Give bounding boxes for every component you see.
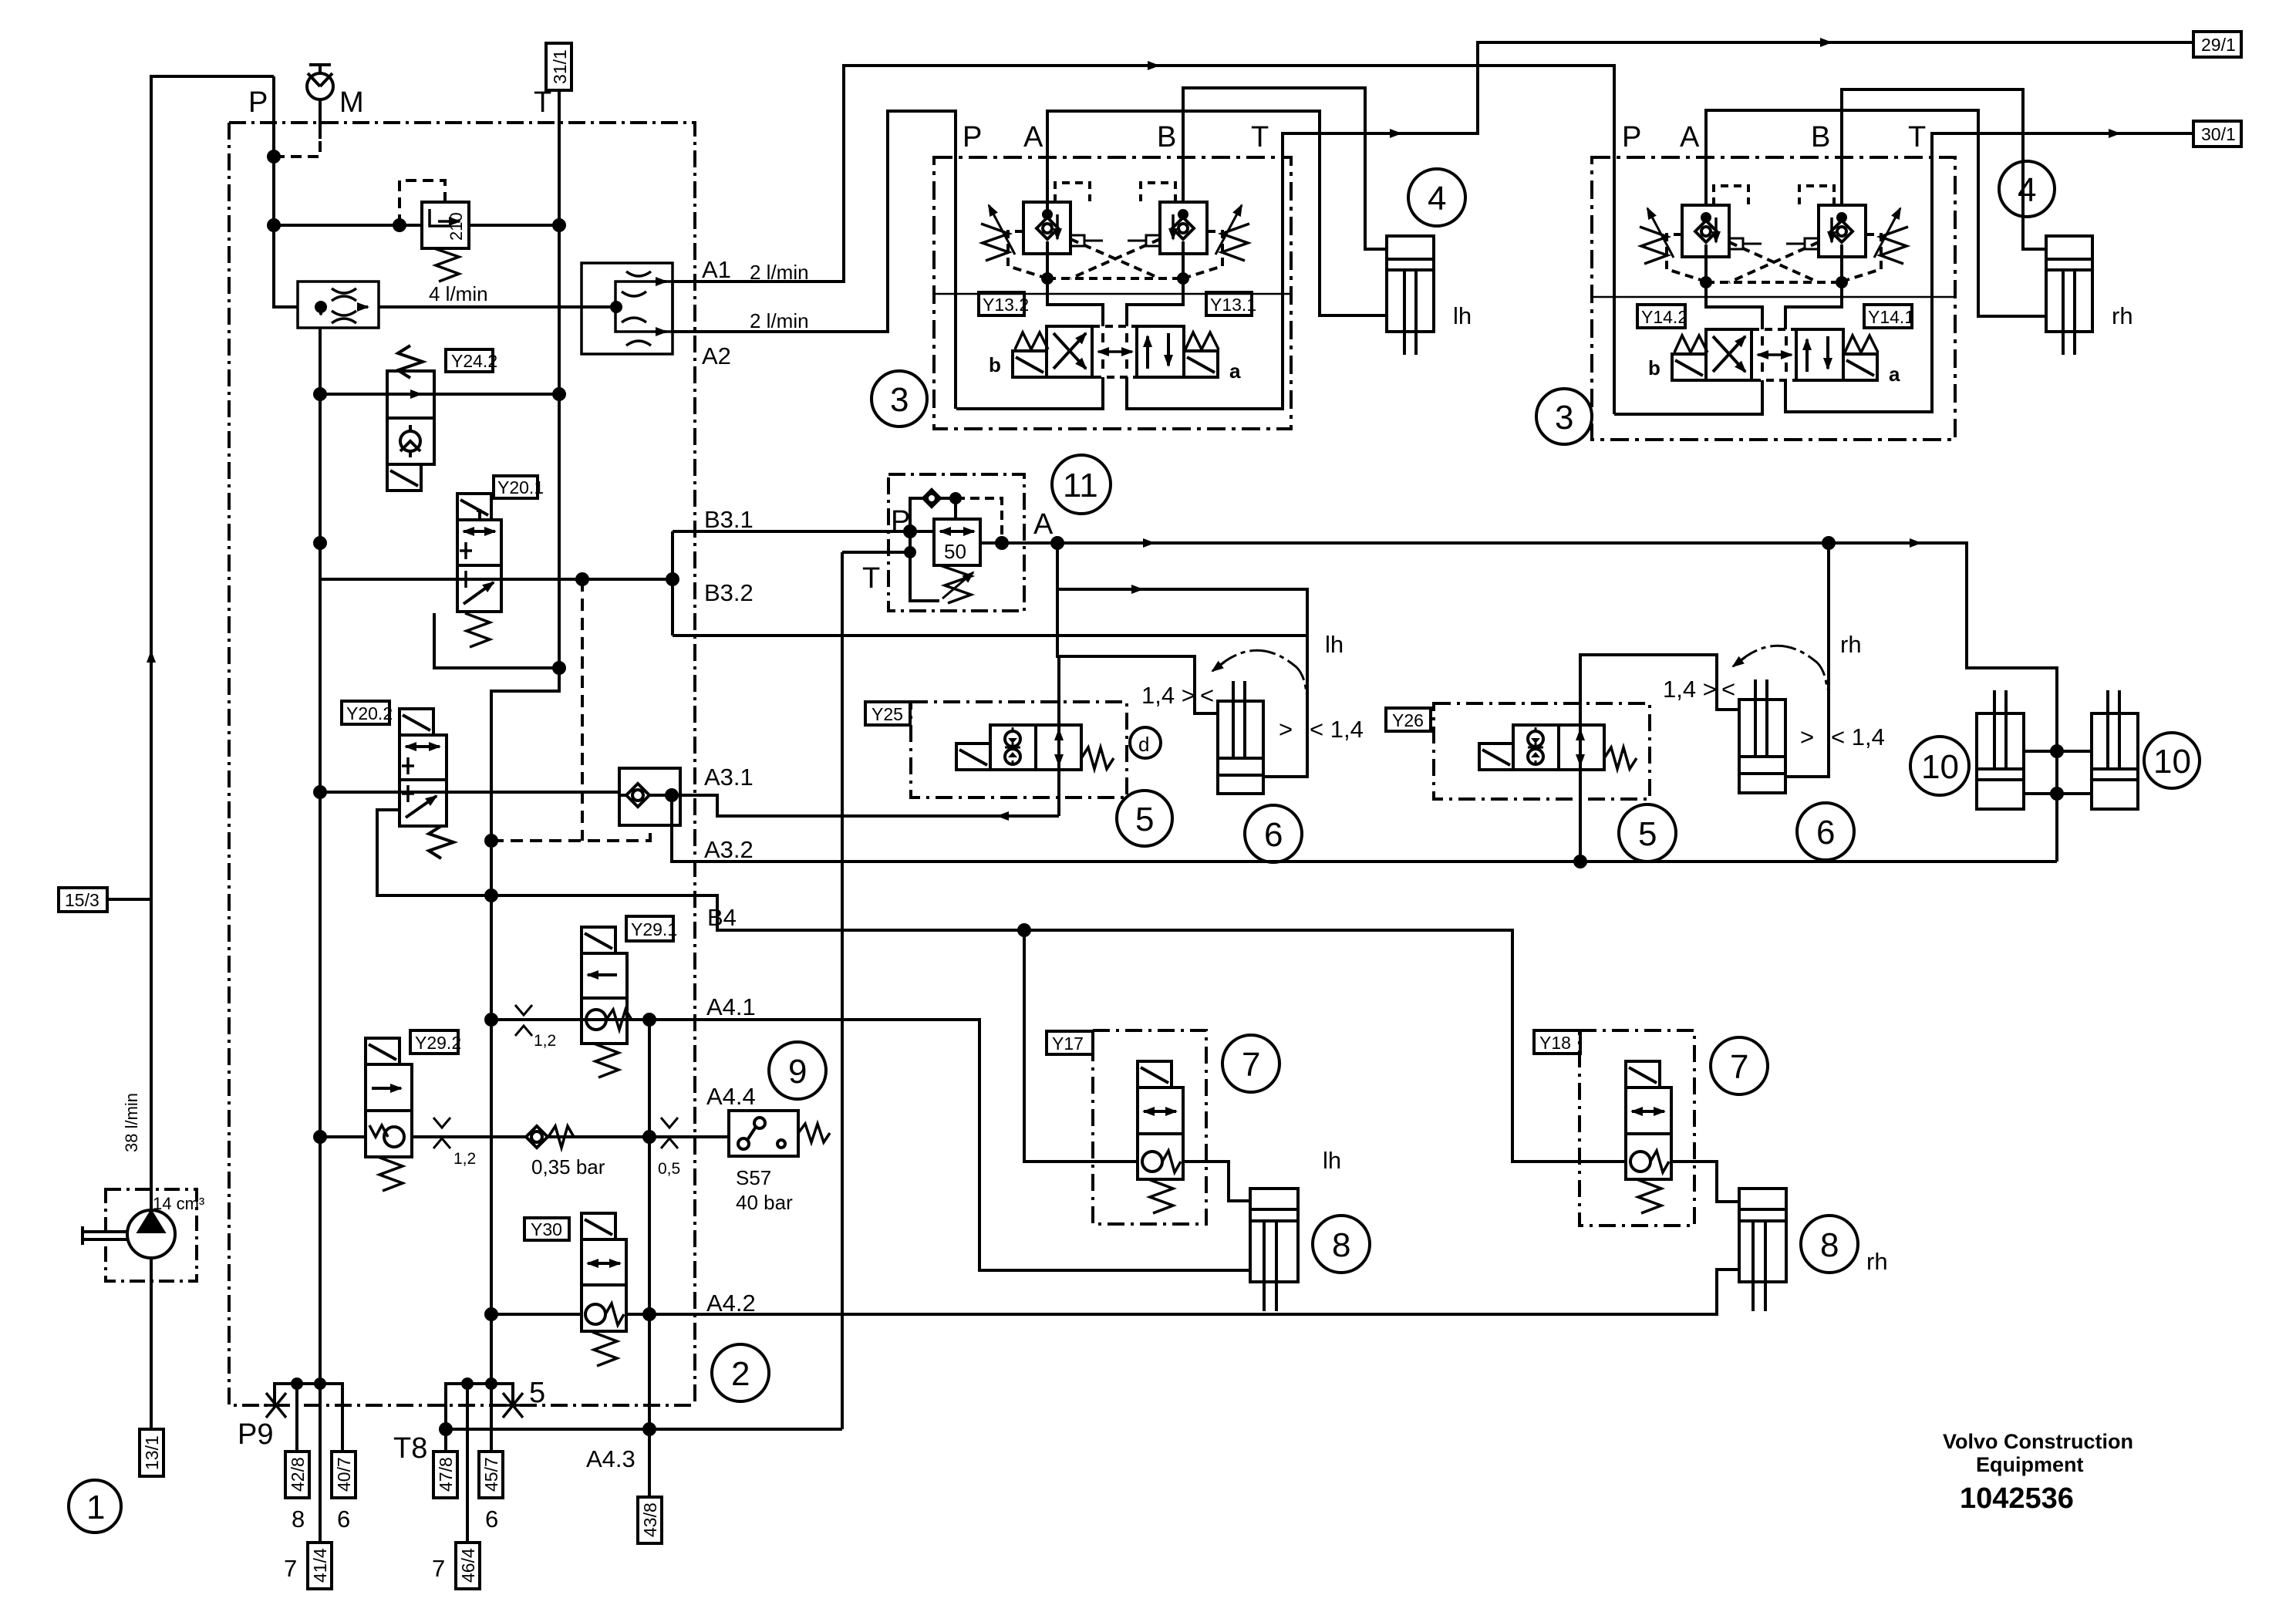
wire: Y24.2 output line to T — [320, 393, 559, 396]
frame: outer dash-dot enclosure (pump station) — [229, 123, 695, 1405]
wire: Y17 out to cylinder 8 lh — [1183, 1162, 1250, 1201]
check valve 0,35 bar — [526, 1126, 574, 1148]
wire: A4.2 to A4.3 frame corner — [841, 1314, 843, 1429]
wire: Y25 through-line — [1057, 656, 1060, 816]
svg-text:38 l/min: 38 l/min — [122, 1093, 141, 1152]
dashed box above CB A lh — [1055, 183, 1090, 202]
valve Y29.2 — [366, 1038, 412, 1191]
wire: T jog to x=637 bus — [491, 668, 559, 1384]
svg-text:T: T — [534, 86, 551, 119]
wire: rh-6 bottom feed — [1785, 543, 1829, 777]
tag 43/8 — [638, 1497, 662, 1543]
wire: Y20.2 main line A3.1 left part — [320, 791, 619, 794]
tag 40/7 — [332, 1452, 356, 1498]
svg-text:rh: rh — [1840, 631, 1862, 658]
svg-text:Y29.2: Y29.2 — [415, 1033, 461, 1053]
svg-text:1,2: 1,2 — [453, 1150, 476, 1168]
wire: A jog into 4/3 valve rh — [1706, 257, 1762, 329]
svg-text:1,4 >: 1,4 > — [1663, 676, 1717, 703]
svg-text:A: A — [1023, 121, 1043, 153]
svg-text:6: 6 — [1264, 816, 1283, 854]
frame: valve block 3 lh dash-dot — [934, 157, 1291, 429]
svg-text:6: 6 — [485, 1506, 498, 1533]
svg-text:46/4: 46/4 — [458, 1548, 478, 1583]
valve Y20.1 — [457, 494, 501, 647]
wire: A2 from divider bottom to left block P — [673, 111, 956, 409]
dashed pilot cross lh — [1008, 231, 1222, 278]
X mark T8 (5) — [501, 1393, 525, 1418]
svg-text:43/8: 43/8 — [640, 1502, 660, 1537]
circle d — [1130, 727, 1161, 758]
circle 8 rh — [1801, 1216, 1858, 1273]
cylinder 8 lh — [1250, 1189, 1298, 1311]
svg-text:B4: B4 — [707, 904, 737, 931]
svg-text:4 l/min: 4 l/min — [429, 282, 488, 305]
svg-text:T: T — [1908, 121, 1926, 153]
wire: left bus x=415 down from flow box — [319, 328, 322, 1384]
frame: valve block 3 rh dash-dot — [1592, 157, 1955, 440]
wire: pump to tag 13/1 — [150, 1258, 153, 1429]
svg-text:<: < — [1200, 682, 1214, 709]
X mark P9 — [264, 1393, 288, 1418]
tag 46/4 — [456, 1543, 480, 1589]
svg-text:B: B — [1157, 121, 1176, 153]
svg-text:5: 5 — [1638, 815, 1657, 853]
valve 11: pilot check valve — [910, 490, 960, 531]
tag 42/8 — [285, 1452, 309, 1498]
svg-text:P9: P9 — [238, 1418, 273, 1451]
label Y13.1 — [1206, 292, 1252, 315]
wire: A1 from divider top to right block P — [673, 66, 1614, 414]
svg-text:29/1: 29/1 — [2201, 35, 2236, 55]
wire: Y18 out to cylinder 8 rh — [1671, 1162, 1739, 1202]
svg-text:7: 7 — [432, 1555, 445, 1582]
svg-text:13/1: 13/1 — [142, 1435, 162, 1470]
wire: A4.1 line — [491, 1020, 1250, 1270]
pump 1: circle + triangle — [127, 1210, 175, 1258]
svg-text:7: 7 — [1730, 1048, 1748, 1086]
circle 6 lh — [1245, 805, 1302, 862]
svg-text:4: 4 — [1428, 180, 1446, 218]
svg-text:1,4 >: 1,4 > — [1141, 682, 1195, 709]
wire: right block A to cylinder 4 rh bottom — [1706, 110, 2046, 316]
valve Y29.1 — [582, 927, 632, 1077]
circle 3 lh — [872, 371, 927, 427]
svg-text:10: 10 — [1921, 748, 1959, 786]
wire: Y20.1 main line — [320, 578, 673, 581]
svg-text:6: 6 — [337, 1506, 350, 1533]
tag 30/1 — [2193, 121, 2241, 147]
wire: A4.2 line — [626, 1270, 1739, 1314]
wire: left block B to cylinder 4 lh top — [1183, 88, 1387, 249]
wire: tag 15/3 to riser — [107, 898, 151, 901]
svg-text:Y29.1: Y29.1 — [631, 919, 677, 939]
svg-text:b: b — [1648, 356, 1660, 379]
orifice mark 1,2 on Y29.2 line — [433, 1118, 450, 1148]
circle 11 — [1052, 455, 1111, 514]
wire: right block B to cylinder 4 rh top — [1842, 89, 2046, 249]
svg-text:Y20.1: Y20.1 — [497, 477, 544, 497]
svg-text:1042536: 1042536 — [1960, 1482, 2074, 1515]
curved arrow rh — [1735, 646, 1827, 690]
svg-text:P: P — [963, 121, 982, 153]
svg-text:A: A — [1680, 121, 1700, 153]
wire: P under valve rh — [1614, 380, 1762, 414]
wire: rh-6 upper feed riser from A3.2 — [1580, 655, 1739, 862]
wire: Y20.1 return to T — [434, 613, 559, 668]
wire: A4.3 line — [446, 1428, 842, 1431]
svg-text:A1: A1 — [702, 256, 731, 283]
svg-text:T8: T8 — [393, 1432, 427, 1465]
cylinder 4 rh — [2046, 236, 2092, 355]
dashed box above CB B lh — [1141, 183, 1175, 202]
wire: T line from 31/1 down — [558, 90, 561, 667]
svg-text:lh: lh — [1325, 631, 1344, 658]
curved arrow lh — [1215, 650, 1306, 694]
svg-text:A2: A2 — [702, 342, 731, 369]
wire: P line down — [274, 76, 298, 307]
T8 bar and drops — [446, 1384, 513, 1452]
circle 7 lh — [1222, 1035, 1279, 1092]
wire: Y26 through-line — [1580, 655, 1581, 862]
svg-text:d: d — [1138, 733, 1149, 756]
svg-text:lh: lh — [1453, 302, 1472, 329]
valve Y30 — [582, 1213, 626, 1366]
svg-text:2 l/min: 2 l/min — [750, 309, 809, 332]
flow divider (A1/A2) — [582, 263, 673, 354]
wire: flow box to divider 4 l/min — [379, 305, 615, 309]
svg-text:< 1,4: < 1,4 — [1831, 723, 1885, 750]
wire: M gauge stub — [319, 101, 322, 139]
tag 13/1 — [140, 1429, 164, 1476]
wire: P under valve lh — [956, 377, 1103, 409]
svg-text:rh: rh — [1866, 1248, 1888, 1275]
relief valve 210 — [422, 202, 469, 282]
counterbalance valve B rh — [1819, 205, 1866, 282]
svg-text:M: M — [339, 86, 364, 119]
svg-text:14 cm³: 14 cm³ — [153, 1194, 204, 1213]
svg-text:9: 9 — [788, 1053, 807, 1091]
svg-text:2 l/min: 2 l/min — [750, 261, 809, 284]
wire: T under valve lh — [1127, 157, 1283, 409]
wire: valve11 T drain x=1092 — [841, 552, 844, 1429]
svg-text:3: 3 — [1555, 399, 1573, 437]
circle 4 lh — [1408, 169, 1465, 226]
svg-text:a: a — [1889, 363, 1900, 386]
svg-text:31/1: 31/1 — [550, 49, 570, 84]
wire: B jog into 4/3 valve lh — [1127, 254, 1183, 326]
valve Y17 — [1138, 1061, 1183, 1213]
wire: 10-cylinder cross connections — [2024, 751, 2092, 794]
valve Y25 frame — [911, 702, 1127, 798]
wire: left block T to 29/1 — [1283, 42, 2193, 157]
svg-text:40/7: 40/7 — [334, 1457, 354, 1492]
pressure switch S57 — [729, 1111, 830, 1156]
spring + arrow right of CB B lh — [1222, 224, 1249, 261]
arrow up on pump riser — [150, 652, 153, 663]
circle 10 right — [2144, 733, 2200, 788]
valve Y25 — [956, 725, 1114, 770]
svg-text:40 bar: 40 bar — [736, 1191, 793, 1214]
svg-text:P: P — [1622, 121, 1641, 153]
counterbalance valve A rh — [1682, 205, 1729, 282]
svg-text:B3.1: B3.1 — [704, 506, 754, 533]
valve Y26 — [1479, 725, 1637, 770]
svg-text:5: 5 — [1135, 801, 1154, 838]
flow control box (4 l/min) — [298, 282, 379, 328]
svg-text:1,2: 1,2 — [534, 1032, 556, 1050]
valve 11: spring adj below — [940, 565, 971, 603]
circle 8 lh — [1313, 1216, 1370, 1273]
svg-text:1: 1 — [86, 1489, 105, 1526]
wire: right block T to 30/1 — [1932, 133, 2193, 157]
svg-text:lh: lh — [1323, 1147, 1341, 1174]
circle 3 rh — [1536, 389, 1592, 444]
tag 45/7 — [479, 1452, 503, 1498]
svg-text:8: 8 — [1820, 1226, 1839, 1264]
cylinder 6 lh rod-up — [1218, 681, 1263, 794]
svg-text:rh: rh — [2112, 302, 2133, 329]
wire: dashed pilot of relief 210 — [400, 180, 445, 225]
svg-text:Y17: Y17 — [1052, 1034, 1084, 1054]
svg-text:a: a — [1229, 359, 1241, 383]
pump 1: shaft — [83, 1226, 127, 1245]
wire: x=842 bus A4.1 to 43/8 — [648, 1020, 651, 1497]
tag 31/1 — [546, 43, 571, 90]
svg-text:Y18: Y18 — [1539, 1033, 1571, 1053]
svg-text:A4.3: A4.3 — [586, 1445, 636, 1472]
svg-text:Y14.2: Y14.2 — [1641, 307, 1687, 327]
svg-text:11: 11 — [1063, 467, 1098, 504]
wire: valve 11 A output main line to rh — [980, 543, 2057, 862]
svg-text:<: < — [1721, 676, 1735, 703]
4/3 valve lh — [1013, 326, 1219, 377]
svg-text:41/4: 41/4 — [310, 1548, 330, 1583]
svg-text:A4.2: A4.2 — [706, 1290, 756, 1317]
svg-text:Volvo Construction: Volvo Construction — [1943, 1430, 2133, 1453]
separator line block 3 lh — [934, 293, 1291, 295]
svg-text:Y14.1: Y14.1 — [1868, 307, 1914, 327]
cylinder 4 lh — [1387, 236, 1434, 355]
wire: left supply riser from pump to top — [151, 76, 274, 1210]
svg-text:Y20.2: Y20.2 — [346, 703, 393, 723]
circle 2 — [712, 1344, 769, 1401]
svg-text:15/3: 15/3 — [65, 890, 99, 910]
wire: B3.1 line into valve 11 — [673, 530, 934, 533]
svg-text:Equipment: Equipment — [1976, 1453, 2084, 1476]
svg-text:0,35 bar: 0,35 bar — [531, 1155, 605, 1179]
wire: B jog into 4/3 valve rh — [1785, 257, 1842, 329]
svg-text:Y24.2: Y24.2 — [451, 351, 497, 371]
svg-text:S57: S57 — [736, 1166, 771, 1189]
svg-text:>: > — [1279, 716, 1293, 743]
circle 4 rh — [1999, 161, 2055, 217]
wire: Y30 feed from x=637 — [491, 1313, 582, 1316]
circle 6 rh — [1797, 803, 1854, 860]
svg-text:4: 4 — [2018, 171, 2036, 209]
orifice mark 0,5 on A4.4 — [661, 1118, 678, 1148]
svg-text:8: 8 — [292, 1506, 305, 1533]
svg-text:A4.4: A4.4 — [706, 1083, 756, 1110]
svg-text:A4.1: A4.1 — [706, 993, 756, 1020]
svg-text:T: T — [1251, 121, 1269, 153]
tag 15/3 — [59, 888, 107, 912]
svg-text:210: 210 — [447, 212, 466, 241]
wire: B3.2 line to lh drop — [673, 634, 1307, 637]
valve Y24.2 — [387, 346, 434, 491]
svg-text:>: > — [1800, 723, 1814, 750]
spring + arrow left of CB A lh — [981, 224, 1009, 261]
wire: T under valve rh — [1785, 157, 1932, 412]
valve Y18 — [1626, 1061, 1671, 1213]
separator line block 3 rh — [1592, 296, 1955, 298]
svg-text:3: 3 — [890, 381, 909, 419]
svg-text:Y30: Y30 — [531, 1219, 562, 1239]
wire: B4 drop to Y17 — [1024, 930, 1138, 1162]
svg-text:0,5: 0,5 — [658, 1160, 680, 1178]
orifice mark 1,2 on A4.1 — [515, 1005, 532, 1036]
svg-text:7: 7 — [1242, 1046, 1260, 1084]
svg-text:47/8: 47/8 — [436, 1457, 456, 1492]
svg-text:P: P — [891, 505, 910, 538]
svg-text:P: P — [248, 86, 268, 119]
circle 7 rh — [1711, 1037, 1768, 1094]
svg-text:42/8: 42/8 — [288, 1457, 308, 1492]
pilot caps between CB lh — [1070, 235, 1103, 246]
svg-text:A3.2: A3.2 — [704, 836, 754, 863]
circle 10 left — [1910, 737, 1969, 795]
counterbalance valve A lh — [1023, 202, 1070, 278]
circle 5 lh — [1117, 791, 1172, 846]
wire: dashed pilot from Y20.1 junction down to check A3.1 — [491, 579, 650, 841]
svg-text:Y13.2: Y13.2 — [983, 295, 1029, 315]
svg-text:30/1: 30/1 — [2201, 124, 2236, 144]
svg-text:B3.2: B3.2 — [704, 579, 754, 606]
circle 9 — [769, 1042, 826, 1099]
label Y13.2 — [979, 292, 1024, 315]
check valve M: circle + T top — [307, 73, 333, 99]
tag 47/8 — [433, 1452, 457, 1498]
wire: B3 vertical pair connector — [671, 531, 674, 636]
svg-text:B: B — [1811, 121, 1830, 153]
wire: lh-6 upper port feed — [1057, 589, 1218, 713]
svg-text:A3.1: A3.1 — [704, 764, 754, 791]
wire: relief 210 line P to T — [274, 224, 559, 227]
circle 5 rh — [1619, 804, 1676, 862]
svg-text:Y25: Y25 — [872, 704, 903, 724]
svg-text:5: 5 — [529, 1377, 545, 1409]
svg-text:Y13.1: Y13.1 — [1210, 295, 1256, 315]
tag 41/4 — [308, 1543, 332, 1589]
4/3 valve rh — [1672, 329, 1878, 380]
svg-text:6: 6 — [1816, 814, 1835, 851]
valve 11: pressure reducing valve frame — [888, 474, 1024, 611]
cylinder 8 rh — [1739, 1189, 1786, 1311]
svg-text:45/7: 45/7 — [481, 1457, 501, 1492]
counterbalance valve B lh — [1160, 202, 1207, 278]
svg-text:10: 10 — [2153, 743, 2191, 781]
label Y14.2 — [1637, 305, 1685, 328]
wire: A3.2 line — [672, 795, 2057, 862]
valve 11: T port line — [842, 531, 910, 552]
wire: Y29.2 / A4.4 line — [320, 1135, 729, 1138]
label Y14.1 — [1864, 305, 1912, 328]
svg-text:Y26: Y26 — [1392, 710, 1424, 730]
svg-text:< 1,4: < 1,4 — [1310, 716, 1364, 743]
valve Y20.2 — [400, 709, 453, 858]
wire: A jog into 4/3 valve lh — [1047, 254, 1103, 326]
svg-text:8: 8 — [1332, 1226, 1350, 1264]
wire: check valve out A3.1 step — [680, 795, 1059, 816]
wire: Y20.2 spring side to B4 — [377, 810, 1626, 1162]
tag 29/1 — [2193, 32, 2241, 57]
svg-text:T: T — [862, 562, 880, 595]
check valve (A3.1) — [619, 768, 680, 825]
P9 bar and drops — [275, 1384, 342, 1452]
pump 1: dash box — [106, 1189, 197, 1281]
valve 11: reducing valve body 50 — [934, 519, 1024, 565]
svg-text:b: b — [989, 353, 1001, 376]
wire: lh feed drop — [1057, 543, 1307, 777]
svg-text:2: 2 — [731, 1355, 750, 1393]
cylinder 6 rh rod-up — [1739, 679, 1785, 793]
wire: left block A to cylinder 4 lh bottom — [1047, 111, 1387, 315]
valve 11: dashed pilot to A — [956, 498, 1002, 540]
circle 1 — [69, 1480, 121, 1533]
svg-text:A: A — [1033, 508, 1054, 541]
svg-text:50: 50 — [944, 540, 966, 563]
svg-text:7: 7 — [284, 1555, 297, 1582]
